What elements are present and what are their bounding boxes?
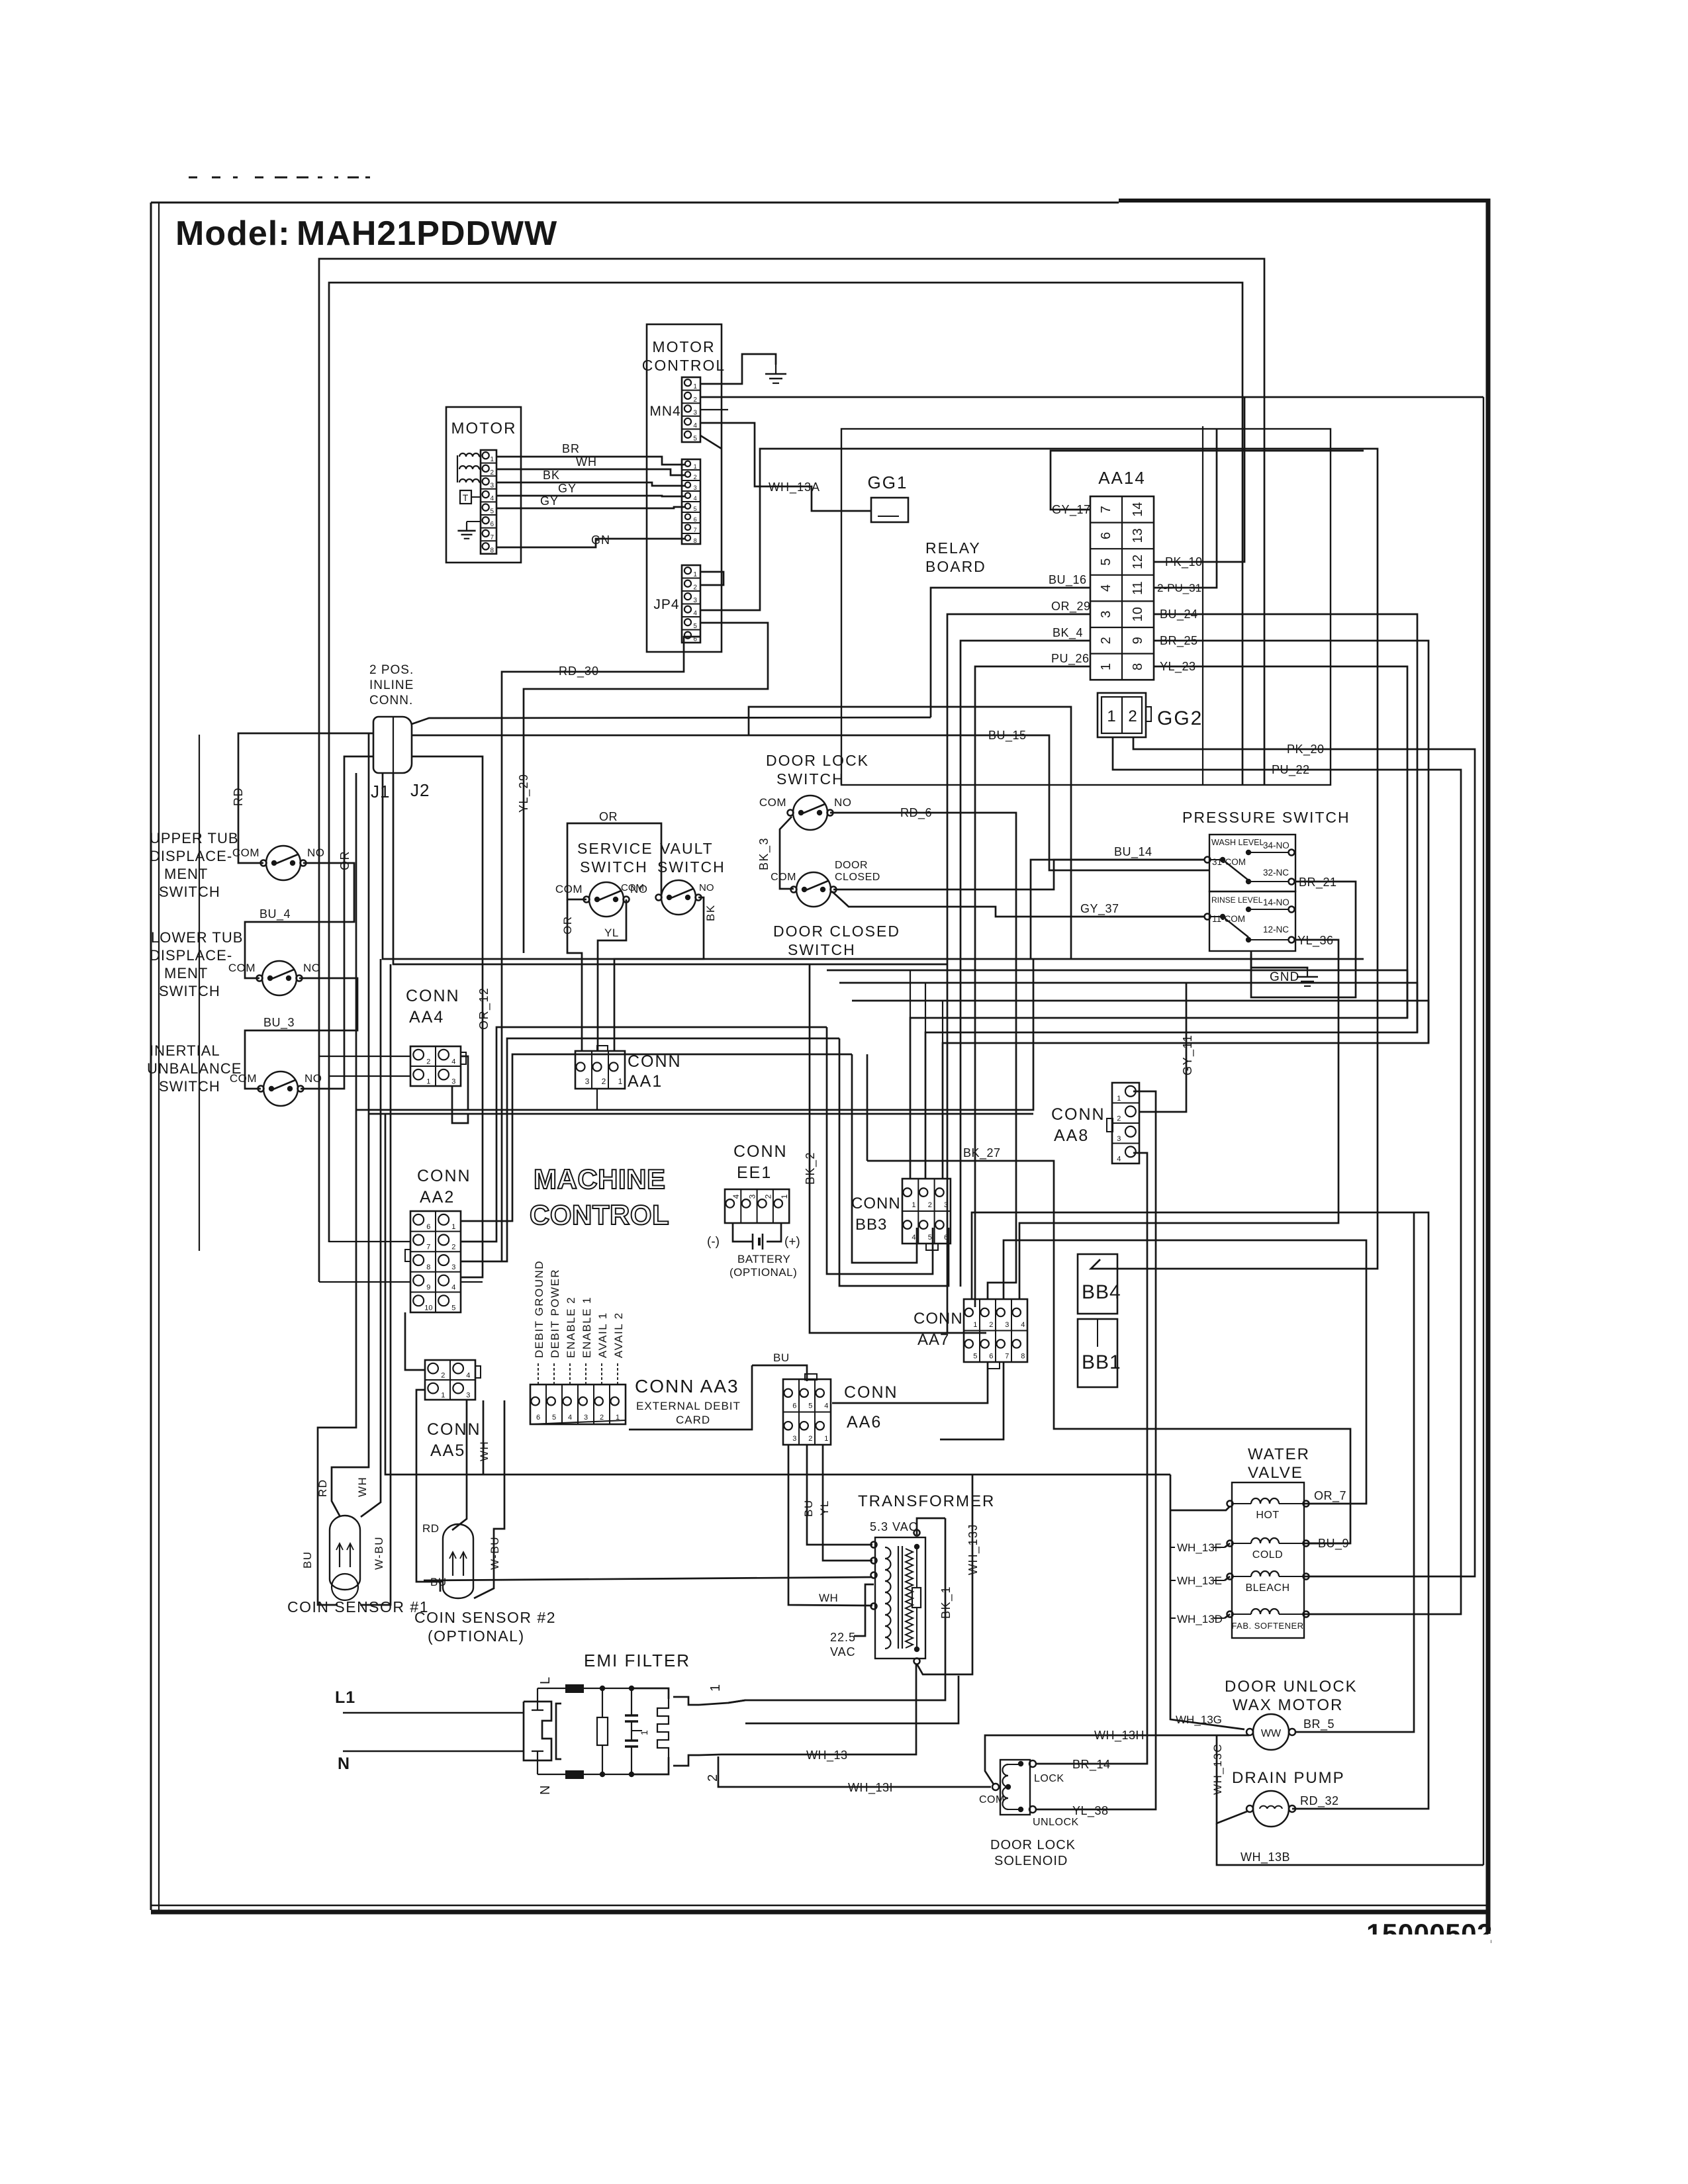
wire BU_9 cold valve — [1309, 1543, 1350, 1545]
water valve coil FAB. SOFTENER — [1227, 1612, 1233, 1617]
wire GY2 motor to motor control — [496, 507, 686, 508]
svg-text:BATTERY: BATTERY — [737, 1253, 790, 1265]
svg-text:COM: COM — [979, 1794, 1005, 1805]
svg-text:WH_13I: WH_13I — [848, 1781, 893, 1795]
svg-text:EE1: EE1 — [737, 1163, 772, 1182]
wire GN motor to motor control — [496, 539, 686, 547]
svg-text:2: 2 — [1099, 637, 1113, 644]
svg-text:AA2: AA2 — [420, 1188, 455, 1206]
wire MN4 pin3 stub — [700, 409, 728, 410]
wire vertical 1131 from relay area — [749, 707, 1071, 959]
svg-text:DOOR LOCK: DOOR LOCK — [990, 1838, 1076, 1852]
svg-text:SWITCH: SWITCH — [159, 884, 220, 900]
wire J2 mid right BU_15 feed — [412, 735, 749, 737]
svg-text:6: 6 — [694, 516, 697, 523]
wire BU_24 AA14 pin10 — [925, 614, 1417, 1179]
svg-text:AA7: AA7 — [917, 1331, 949, 1349]
wire BK_4 AA14 pin2 — [961, 641, 1090, 1287]
svg-text:BU_24: BU_24 — [1160, 608, 1198, 621]
wire AA2 right row1 up — [461, 1054, 852, 1221]
wire BU into AA6 — [752, 1365, 807, 1381]
svg-text:FAB. SOFTENER: FAB. SOFTENER — [1231, 1621, 1303, 1631]
svg-text:WH_13G: WH_13G — [1176, 1713, 1222, 1726]
svg-text:2: 2 — [764, 1194, 773, 1199]
wire BK_2 vertical — [810, 964, 986, 1333]
svg-text:10: 10 — [1131, 607, 1145, 621]
svg-text:SWITCH: SWITCH — [776, 770, 845, 788]
svg-text:RD: RD — [316, 1479, 329, 1497]
svg-text:3: 3 — [694, 484, 697, 491]
svg-text:BR: BR — [562, 442, 580, 455]
svg-text:GY_17: GY_17 — [1052, 503, 1091, 517]
EMI inductor top — [565, 1684, 584, 1693]
connector AA1 — [575, 1051, 625, 1089]
wire W-BU coin sensor2 — [474, 1400, 504, 1598]
svg-text:VALVE: VALVE — [1248, 1464, 1303, 1482]
svg-text:7: 7 — [1099, 506, 1113, 513]
svg-text:WH: WH — [356, 1477, 369, 1497]
svg-text:5: 5 — [490, 508, 494, 516]
wire PU_31 AA14 pin11 — [1154, 429, 1217, 588]
svg-text:9: 9 — [1131, 637, 1145, 644]
EMI cap bracket left — [556, 1704, 561, 1759]
wire long left vertical — [199, 735, 200, 1251]
wire bus from AA1 area y1449 — [383, 773, 1364, 959]
wire BK_27 — [867, 1161, 1350, 1543]
wire RD coin sensor1 — [332, 733, 369, 1517]
svg-text:(OPTIONAL): (OPTIONAL) — [729, 1266, 797, 1279]
svg-text:5: 5 — [552, 1414, 556, 1422]
svg-text:1: 1 — [441, 1391, 445, 1399]
svg-text:YL_23: YL_23 — [1160, 660, 1196, 674]
wire WH long to transformer pin3 — [424, 1577, 872, 1580]
svg-text:COIN SENSOR #2: COIN SENSOR #2 — [414, 1609, 556, 1626]
svg-text:5: 5 — [694, 506, 697, 512]
wire BR motor to motor control — [496, 457, 686, 465]
svg-text:WH_13: WH_13 — [806, 1749, 848, 1762]
wire AA7 pin1 up to drain pump RD_32 — [972, 1212, 1429, 1809]
svg-text:WASH LEVEL: WASH LEVEL — [1211, 838, 1264, 847]
svg-text:6: 6 — [944, 1234, 948, 1242]
ground symbol near motor control — [775, 365, 776, 374]
svg-text:5.3 VAC: 5.3 VAC — [870, 1520, 918, 1533]
svg-text:2: 2 — [693, 396, 697, 404]
svg-text:1: 1 — [1099, 663, 1113, 670]
svg-text:J1: J1 — [371, 782, 390, 801]
svg-text:DOOR: DOOR — [835, 860, 868, 871]
svg-text:2-PU_31: 2-PU_31 — [1157, 582, 1201, 594]
wire WH motor to motor control — [496, 469, 686, 475]
svg-text:CONN: CONN — [1051, 1105, 1105, 1124]
svg-text:4: 4 — [1021, 1321, 1025, 1329]
svg-text:COIN SENSOR #1: COIN SENSOR #1 — [287, 1598, 429, 1615]
svg-text:EXTERNAL DEBIT: EXTERNAL DEBIT — [636, 1400, 741, 1412]
svg-text:RINSE LEVEL: RINSE LEVEL — [1211, 895, 1263, 905]
svg-text:COM: COM — [228, 962, 256, 974]
wire BU AA6 pin5 down to transformer pin1 — [807, 1445, 872, 1545]
svg-text:2: 2 — [441, 1371, 445, 1379]
EMI inductor bottom — [565, 1770, 584, 1779]
svg-text:1: 1 — [708, 1683, 723, 1692]
svg-text:CONN: CONN — [914, 1310, 963, 1328]
svg-text:BK_2: BK_2 — [804, 1152, 818, 1185]
motor M1 box — [446, 407, 521, 563]
wire WH_13I to door lock solenoid COM — [735, 1786, 991, 1788]
svg-text:AA1: AA1 — [628, 1072, 663, 1091]
wire W-BU coin sensor1 — [360, 964, 391, 1605]
svg-text:WH_13H: WH_13H — [1094, 1729, 1145, 1743]
wire J2 top right — [412, 717, 931, 724]
svg-text:INLINE: INLINE — [369, 678, 414, 692]
svg-text:2: 2 — [451, 1244, 455, 1251]
svg-text:CLOSED: CLOSED — [835, 872, 880, 883]
battery optional symbol — [733, 1223, 753, 1242]
wire AA2 right row4 to OR_12 — [461, 1281, 483, 1283]
svg-text:14: 14 — [1131, 502, 1145, 517]
water valve coil BLEACH — [1227, 1574, 1233, 1580]
component BB1 — [1078, 1319, 1117, 1387]
svg-text:WATER: WATER — [1248, 1445, 1310, 1463]
svg-text:J2: J2 — [410, 780, 430, 800]
svg-text:BK: BK — [543, 469, 560, 482]
svg-text:BR_14: BR_14 — [1072, 1758, 1111, 1772]
svg-text:WAX MOTOR: WAX MOTOR — [1233, 1696, 1343, 1714]
svg-text:WW: WW — [1261, 1728, 1282, 1739]
svg-text:DRAIN PUMP: DRAIN PUMP — [1232, 1769, 1345, 1787]
svg-text:BU: BU — [301, 1551, 314, 1569]
wire vertical 1375 upper — [910, 970, 911, 1018]
svg-text:CARD: CARD — [676, 1414, 710, 1426]
svg-text:DEBIT POWER: DEBIT POWER — [549, 1269, 561, 1358]
pressure switch ground GND — [1251, 951, 1307, 969]
EMI capacitors — [631, 1688, 632, 1715]
svg-text:2: 2 — [490, 469, 494, 477]
svg-text:7: 7 — [1005, 1352, 1009, 1360]
svg-text:CONN: CONN — [417, 1167, 471, 1185]
svg-text:1: 1 — [618, 1077, 623, 1086]
conn AA3 signal labels — [538, 1363, 539, 1385]
motor connector pins — [481, 450, 496, 554]
svg-text:2: 2 — [989, 1321, 993, 1329]
svg-text:COM: COM — [555, 883, 583, 895]
wire EMI output2 up — [745, 1676, 959, 1723]
svg-text:1: 1 — [912, 1201, 915, 1209]
svg-text:BU: BU — [773, 1351, 790, 1364]
motor control middle connector — [682, 459, 700, 544]
wire AA2 pin9 left to frame — [319, 1281, 410, 1283]
wire RD tub switch COM to J1 — [238, 733, 373, 863]
wire GY motor to motor control — [496, 496, 686, 496]
svg-text:AA4: AA4 — [409, 1008, 444, 1026]
svg-text:4: 4 — [466, 1371, 470, 1379]
wire bus y1466 to right loop — [827, 970, 1407, 1018]
svg-text:PK_10: PK_10 — [1165, 555, 1203, 569]
svg-text:WH_13B: WH_13B — [1241, 1850, 1290, 1864]
svg-text:NO: NO — [305, 1072, 322, 1085]
svg-text:MENT: MENT — [164, 866, 208, 882]
wire PU_26 AA14 pin1 — [975, 666, 1090, 1307]
svg-text:9: 9 — [426, 1284, 430, 1292]
svg-text:8: 8 — [490, 547, 494, 554]
svg-text:AA5: AA5 — [430, 1441, 465, 1460]
door lock solenoid — [1000, 1760, 1030, 1815]
wire GY_17 AA14 pin7 — [1051, 451, 1364, 510]
svg-text:2: 2 — [1117, 1115, 1121, 1122]
svg-text:WH_13C: WH_13C — [1211, 1743, 1224, 1795]
svg-text:BOARD: BOARD — [925, 558, 986, 575]
wire AA2 pin7 left to frame — [329, 1241, 410, 1242]
svg-text:2: 2 — [693, 584, 697, 592]
svg-text:2: 2 — [1128, 707, 1137, 725]
wire RD_30 JP4 pin6 — [502, 637, 700, 1261]
svg-text:4: 4 — [912, 1234, 915, 1242]
svg-text:PRESSURE SWITCH: PRESSURE SWITCH — [1182, 809, 1350, 826]
svg-text:DOOR CLOSED: DOOR CLOSED — [773, 923, 900, 940]
svg-text:5: 5 — [808, 1402, 812, 1410]
svg-text:10: 10 — [424, 1304, 432, 1312]
transformer 22.5 VAC tap — [854, 1584, 874, 1636]
svg-text:EMI FILTER: EMI FILTER — [584, 1651, 690, 1670]
relay board box — [841, 429, 1331, 785]
wire vertical 1424 upper — [942, 1001, 943, 1043]
svg-text:BU_14: BU_14 — [1114, 845, 1152, 859]
transformer bottom pin — [914, 1659, 920, 1664]
motor ground — [466, 523, 467, 531]
wire bus y1683 — [369, 1113, 1033, 1115]
svg-text:3: 3 — [451, 1077, 455, 1085]
svg-text:3: 3 — [584, 1414, 588, 1422]
wire OR inertial NO up to J1 — [301, 756, 373, 1089]
svg-text:SERVICE: SERVICE — [577, 840, 653, 857]
svg-text:6: 6 — [426, 1223, 430, 1231]
svg-text:GN: GN — [591, 533, 610, 547]
svg-text:DISPLACE-: DISPLACE- — [150, 947, 232, 964]
svg-text:BR_21: BR_21 — [1299, 876, 1337, 889]
scan noise dashes top — [189, 177, 197, 179]
svg-text:BU_16: BU_16 — [1049, 573, 1087, 587]
svg-text:3: 3 — [792, 1435, 796, 1443]
svg-text:W-BU: W-BU — [373, 1536, 385, 1570]
svg-text:1: 1 — [694, 463, 697, 470]
svg-text:BB1: BB1 — [1082, 1351, 1121, 1373]
svg-text:BU_3: BU_3 — [263, 1016, 295, 1030]
svg-text:4: 4 — [568, 1414, 572, 1422]
wire WH AA6 pin6 down to transformer pin4 — [788, 1445, 872, 1606]
wire BU_16 AA14 pin4 — [931, 588, 1090, 717]
svg-text:AA8: AA8 — [1054, 1126, 1089, 1145]
wire RD_6 door lock switch NO — [830, 813, 1016, 1299]
wire GY_37 to pressure switch 11-COM — [1109, 916, 1205, 918]
svg-text:GY: GY — [540, 494, 559, 508]
wire vertical 1310 — [867, 1054, 868, 1161]
svg-text:3: 3 — [451, 1263, 455, 1271]
wire AA4 pin2 left — [319, 1056, 410, 1057]
svg-text:1: 1 — [693, 383, 697, 390]
wire PK_10 AA14 pin12 — [1154, 397, 1244, 562]
svg-text:8: 8 — [1131, 663, 1145, 670]
svg-text:BK_4: BK_4 — [1053, 626, 1083, 640]
svg-text:BB3: BB3 — [855, 1216, 887, 1234]
svg-text:12-NC: 12-NC — [1263, 925, 1289, 934]
wire AA5 pin4 down WH — [483, 1400, 485, 1475]
svg-text:1: 1 — [639, 1729, 649, 1735]
water valve WH_13 staircase trunk — [1170, 1475, 1244, 1729]
wire BR_5 wax motor to right vertical — [1295, 1212, 1414, 1732]
wire AA4 pin4 right down — [461, 1056, 468, 1110]
svg-text:MN4: MN4 — [649, 404, 680, 419]
wire BR_25 AA14 pin9 — [943, 641, 1429, 1179]
svg-text:CONN: CONN — [733, 1142, 788, 1161]
svg-text:UNBALANCE: UNBALANCE — [147, 1060, 242, 1077]
wire WH_13A MN4 to GG1 — [700, 423, 871, 511]
wire AA5 pin3 down to coin sensor2 — [452, 1400, 467, 1530]
wire door closed switch to 31-COM — [833, 860, 1205, 889]
svg-text:WH: WH — [819, 1592, 838, 1604]
svg-text:VAULT: VAULT — [660, 840, 714, 857]
svg-text:JP4: JP4 — [653, 597, 679, 612]
svg-text:T: T — [463, 492, 469, 503]
svg-text:COM: COM — [759, 796, 786, 809]
wire JP4 pin5 to YL_29 — [524, 623, 768, 953]
svg-text:COM: COM — [621, 882, 644, 893]
svg-text:YL_29: YL_29 — [517, 773, 531, 813]
svg-text:CONN.: CONN. — [369, 694, 413, 707]
svg-text:N: N — [538, 1784, 553, 1795]
svg-text:BU: BU — [802, 1499, 815, 1517]
wire YL_23 AA14 pin8 — [910, 666, 1407, 1179]
svg-text:4: 4 — [694, 495, 697, 502]
svg-text:AVAIL 1: AVAIL 1 — [596, 1312, 609, 1358]
svg-text:BU_9: BU_9 — [1318, 1537, 1349, 1551]
svg-text:WH_13A: WH_13A — [769, 480, 820, 494]
svg-text:MOTOR: MOTOR — [451, 420, 517, 437]
svg-text:1: 1 — [451, 1223, 455, 1231]
svg-text:13: 13 — [1131, 528, 1145, 543]
svg-text:4: 4 — [1117, 1155, 1121, 1163]
svg-text:WH: WH — [478, 1441, 491, 1461]
svg-text:SOLENOID: SOLENOID — [994, 1854, 1068, 1868]
svg-text:CONN: CONN — [844, 1383, 898, 1402]
svg-text:YL: YL — [604, 927, 619, 939]
svg-text:OR_7: OR_7 — [1314, 1489, 1346, 1503]
wire AA5 pin2 left up — [405, 1312, 425, 1370]
svg-text:5: 5 — [973, 1352, 977, 1360]
svg-text:LOWER TUB: LOWER TUB — [151, 929, 243, 946]
svg-text:TRANSFORMER: TRANSFORMER — [858, 1492, 995, 1510]
svg-text:DEBIT GROUND: DEBIT GROUND — [533, 1260, 545, 1358]
wire BU_15 — [749, 735, 1209, 870]
wire MN4 pin1 to ground — [700, 354, 776, 384]
svg-text:L1: L1 — [335, 1688, 355, 1707]
motor control box — [647, 324, 722, 652]
wire WH long bus to water valve trunk — [385, 1114, 1170, 1475]
svg-text:MAH21PDDWW: MAH21PDDWW — [297, 214, 557, 253]
svg-text:6: 6 — [490, 521, 494, 528]
frame wire B — [329, 283, 1243, 1242]
wire AA7 pin6 down — [832, 1362, 988, 1403]
svg-text:7: 7 — [426, 1244, 430, 1251]
svg-text:DOOR UNLOCK: DOOR UNLOCK — [1225, 1678, 1358, 1696]
wire vertical 1398 upper — [925, 983, 926, 1032]
wire BK_1 transformer to EMI — [728, 1518, 945, 1703]
svg-text:6: 6 — [1099, 532, 1113, 539]
wire AA2 right row2 up — [461, 1027, 827, 1242]
page border outer frame — [151, 202, 1119, 204]
svg-text:GY: GY — [558, 482, 577, 495]
svg-text:3: 3 — [693, 597, 697, 604]
svg-text:3: 3 — [747, 1194, 757, 1199]
wire BK vault switch NO down — [614, 897, 704, 1051]
svg-text:(-): (-) — [707, 1235, 720, 1249]
svg-text:5: 5 — [693, 623, 697, 630]
svg-text:BR_25: BR_25 — [1160, 634, 1198, 648]
wire BB3 pin4 down — [852, 1054, 917, 1263]
svg-text:3: 3 — [466, 1391, 470, 1399]
svg-text:ENABLE 1: ENABLE 1 — [581, 1297, 593, 1358]
svg-text:MOTOR: MOTOR — [652, 338, 715, 355]
wire bus y1677 — [356, 959, 1033, 1110]
wire WH_13J transformer — [917, 1475, 972, 1674]
svg-text:5: 5 — [928, 1234, 932, 1242]
svg-text:12: 12 — [1131, 555, 1145, 569]
svg-text:1: 1 — [1107, 707, 1115, 725]
svg-text:UPPER TUB: UPPER TUB — [150, 830, 239, 846]
svg-text:DISPLACE-: DISPLACE- — [150, 848, 232, 864]
EMI output inductor comb — [657, 1699, 669, 1757]
svg-text:6: 6 — [792, 1402, 796, 1410]
svg-text:3: 3 — [1005, 1321, 1009, 1329]
wire bus y1485 — [839, 983, 1417, 1032]
svg-text:GG2: GG2 — [1157, 707, 1203, 729]
svg-text:1: 1 — [973, 1321, 977, 1329]
svg-text:CONN: CONN — [427, 1420, 481, 1439]
svg-text:SWITCH: SWITCH — [657, 858, 726, 876]
wire OR_29 AA14 pin3 — [947, 614, 1090, 1333]
wire AA7 pin3 up to hot valve OR_7 — [1004, 1240, 1366, 1504]
svg-text:BU_4: BU_4 — [259, 907, 291, 921]
svg-text:2: 2 — [426, 1058, 430, 1066]
svg-text:2: 2 — [808, 1435, 812, 1443]
svg-text:11-COM: 11-COM — [1212, 914, 1245, 924]
svg-text:1: 1 — [824, 1435, 828, 1443]
connector AA3 external debit card — [530, 1385, 626, 1424]
svg-text:1: 1 — [490, 456, 494, 463]
frame wire A — [319, 259, 1264, 1282]
svg-text:3: 3 — [1099, 611, 1113, 618]
wire WH_13F — [1170, 1506, 1230, 1510]
svg-text:CONTROL: CONTROL — [530, 1199, 669, 1230]
svg-text:4: 4 — [451, 1058, 455, 1066]
svg-text:3: 3 — [585, 1077, 590, 1086]
svg-text:2: 2 — [928, 1201, 932, 1209]
svg-text:BLEACH: BLEACH — [1245, 1582, 1289, 1594]
svg-text:3: 3 — [944, 1201, 948, 1209]
wire WH_13C drain pump left — [1217, 1735, 1247, 1823]
svg-text:NO: NO — [699, 882, 714, 893]
svg-text:COM: COM — [771, 872, 796, 883]
svg-text:VAC: VAC — [830, 1645, 856, 1659]
wire right border vertical MN4 to WH_13B — [1483, 397, 1484, 1865]
wire BR_21 pressure switch 32-NC — [1251, 882, 1356, 997]
wire AA8 pin4 to BR_14 door solenoid — [1036, 1153, 1147, 1764]
svg-text:SWITCH: SWITCH — [159, 983, 220, 999]
svg-text:OR: OR — [599, 810, 618, 823]
svg-text:UNLOCK: UNLOCK — [1033, 1817, 1079, 1828]
svg-text:3: 3 — [693, 409, 697, 416]
svg-text:CONN: CONN — [406, 987, 460, 1005]
motor winding coils — [457, 455, 458, 482]
svg-text:INERTIAL: INERTIAL — [150, 1042, 220, 1059]
